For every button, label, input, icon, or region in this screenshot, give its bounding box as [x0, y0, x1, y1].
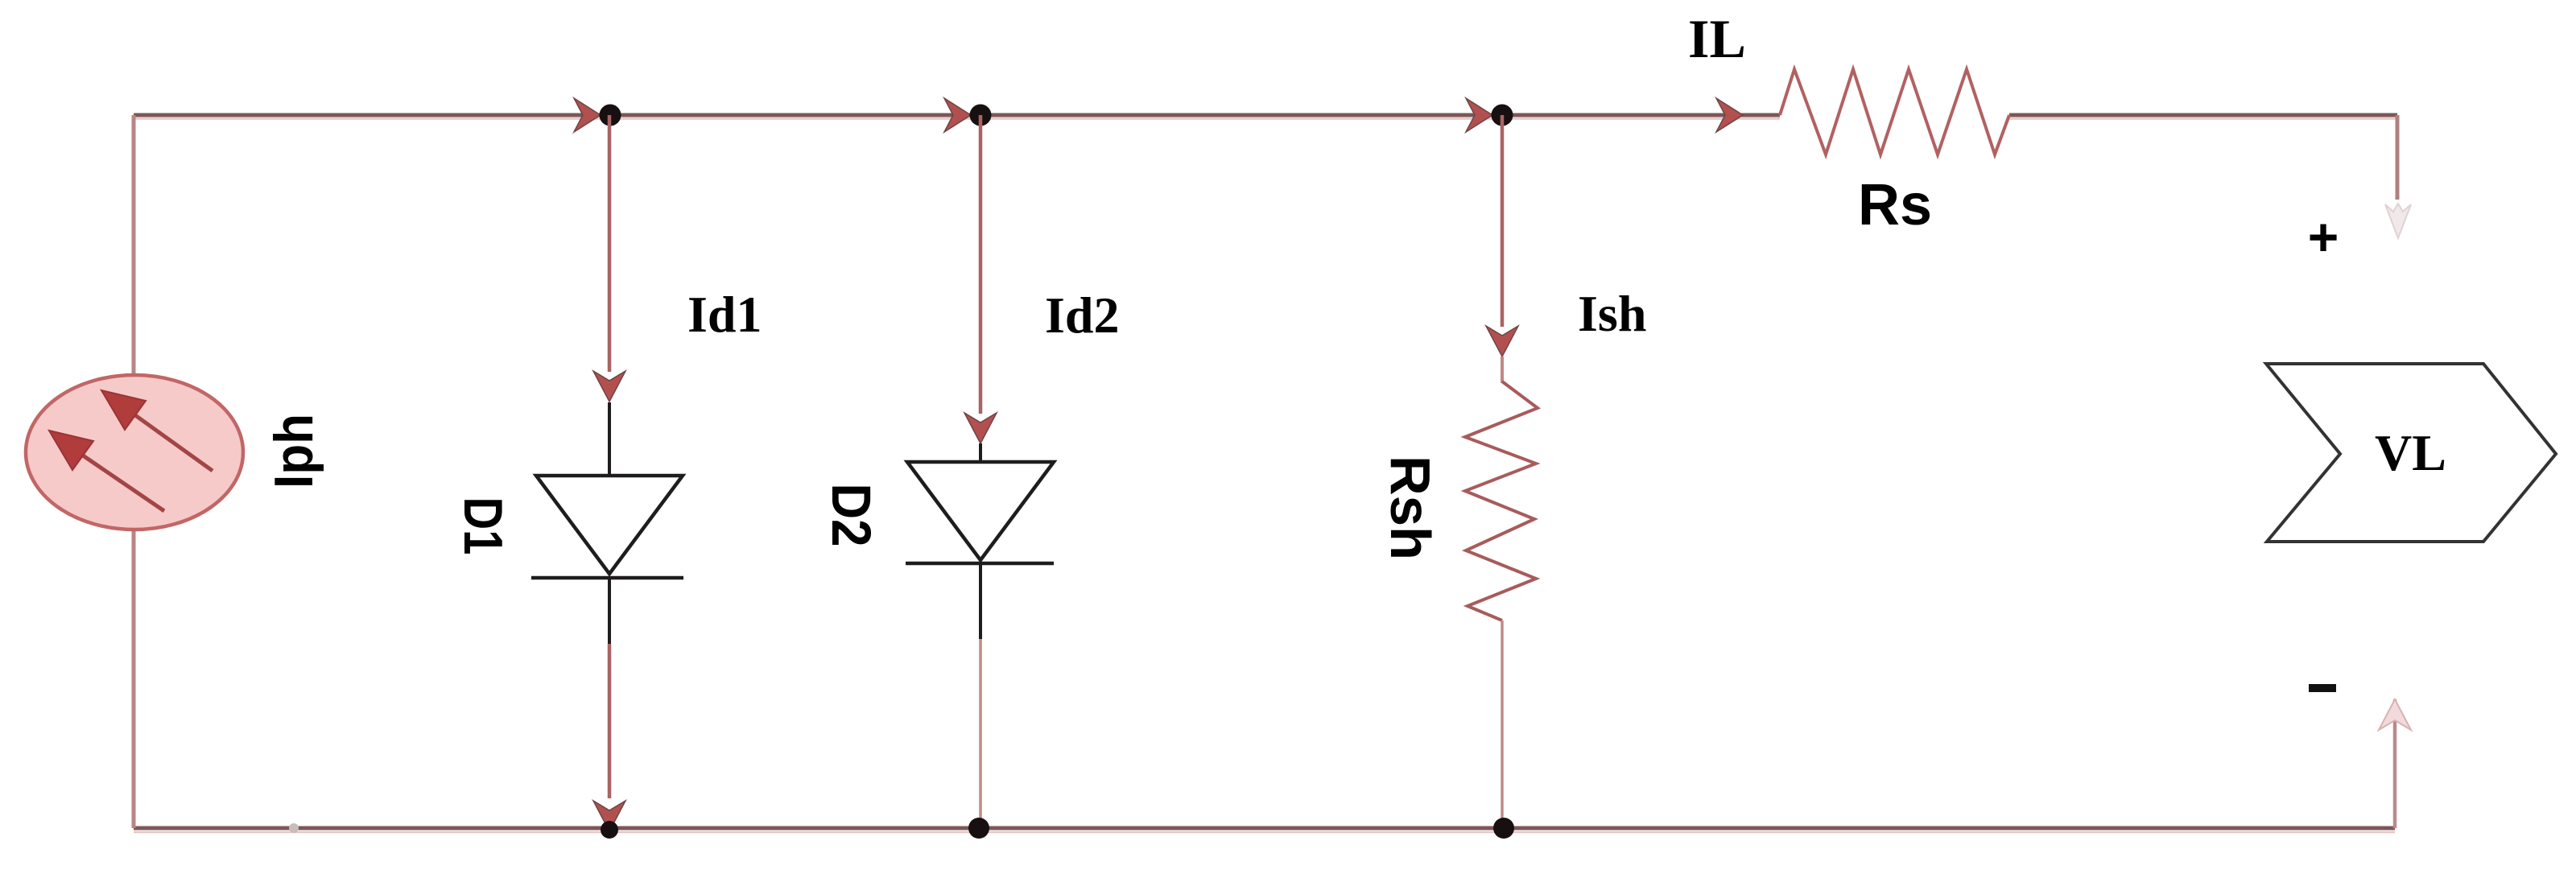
svg-text:D2: D2: [820, 484, 882, 547]
svg-text:Rsh: Rsh: [1379, 455, 1442, 560]
svg-text:IL: IL: [1688, 8, 1746, 69]
svg-text:Id2: Id2: [1045, 286, 1120, 344]
svg-text:Iph: Iph: [263, 414, 324, 488]
svg-text:Id1: Id1: [687, 286, 762, 343]
svg-text:Ish: Ish: [1578, 285, 1646, 342]
svg-text:D1: D1: [452, 497, 514, 555]
svg-text:Rs: Rs: [1858, 173, 1932, 237]
svg-text:VL: VL: [2375, 424, 2446, 481]
svg-text:+: +: [2308, 207, 2339, 266]
